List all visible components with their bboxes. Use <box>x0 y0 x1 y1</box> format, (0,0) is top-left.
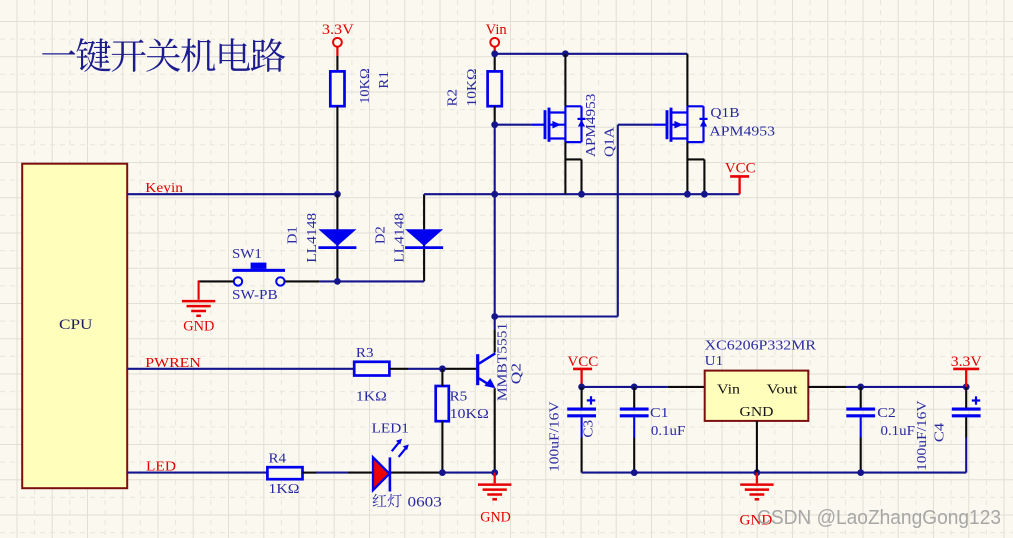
svg-text:3.3V: 3.3V <box>322 22 355 38</box>
diode D2 LL4148 <box>373 213 444 263</box>
svg-text:0.1uF: 0.1uF <box>651 423 686 438</box>
wire D1 anode vertical <box>336 194 338 281</box>
wire D2 vertical <box>423 194 425 281</box>
svg-text:1KΩ: 1KΩ <box>269 481 300 496</box>
resistor R3 1KΩ <box>354 345 389 403</box>
ground GND at Q2 <box>478 473 511 526</box>
svg-text:0603: 0603 <box>408 494 442 510</box>
svg-text:1KΩ: 1KΩ <box>356 388 387 403</box>
wire SW1 right to D1 node <box>285 280 338 282</box>
svg-text:C1: C1 <box>650 405 669 420</box>
svg-text:Q1B: Q1B <box>710 106 739 121</box>
svg-text:Vout: Vout <box>767 382 798 397</box>
svg-text:Vin: Vin <box>717 382 740 397</box>
regulator U1 XC6206P332MR <box>705 339 817 421</box>
svg-text:GND: GND <box>740 405 774 420</box>
wire gate node to Q1A gate <box>495 124 532 126</box>
resistor R1 10KΩ <box>330 68 391 106</box>
svg-text:LL4148: LL4148 <box>392 213 407 263</box>
power port VCC (rail) <box>725 161 756 195</box>
wire Q1A drain pin <box>564 54 566 107</box>
watermark CSDN @LaoZhangGong123 <box>757 506 1001 529</box>
svg-text:R1: R1 <box>376 71 391 89</box>
wire Q1B drain pin <box>686 54 688 107</box>
wire LED1 cathode to R5 node <box>391 472 442 474</box>
svg-text:10KΩ: 10KΩ <box>450 406 489 421</box>
node Q1A drain junction <box>562 50 569 57</box>
svg-text:APM4953: APM4953 <box>583 93 598 157</box>
svg-text:GND: GND <box>480 510 511 526</box>
wire Vout rail <box>808 386 966 388</box>
svg-text:100uF/16V: 100uF/16V <box>914 400 929 471</box>
wire SW1 left to GND corner <box>199 280 234 282</box>
net label LED <box>146 459 176 474</box>
wire GND drop <box>198 280 200 299</box>
power port Vin (top) <box>486 22 508 51</box>
wire Q1A source pins <box>565 142 581 194</box>
svg-text:Vin: Vin <box>486 22 508 38</box>
resistor R5 10KΩ <box>436 386 489 421</box>
svg-text:MMBT5551: MMBT5551 <box>495 323 510 401</box>
node Keyin-D1 junction <box>334 191 341 198</box>
svg-text:R2: R2 <box>445 89 460 107</box>
svg-text:100uF/16V: 100uF/16V <box>547 401 562 472</box>
node U1 GND junction <box>754 469 761 476</box>
switch SW1 SW-PB <box>232 247 285 303</box>
svg-text:SW1: SW1 <box>232 247 262 262</box>
node C3 junction <box>578 384 585 391</box>
node Q1B gate junction <box>491 313 498 320</box>
title 一键开关机电路 <box>42 38 285 72</box>
svg-text:C2: C2 <box>877 405 896 420</box>
wire PWREN <box>127 368 354 370</box>
svg-text:0.1uF: 0.1uF <box>881 423 916 438</box>
wire bottom rail <box>582 472 967 474</box>
wire VCC rail <box>495 193 740 195</box>
wire to Q2 emitter node <box>442 472 494 474</box>
node Vin junction <box>491 50 498 57</box>
svg-text:C4: C4 <box>932 423 947 443</box>
wire U1 GND pin <box>756 421 758 473</box>
svg-text:GND: GND <box>183 319 214 335</box>
capacitor C3 100uF/16V <box>547 387 597 473</box>
wire main vertical net <box>494 125 496 353</box>
node rail junction at main vertical <box>491 191 498 198</box>
node Q1B source junctions <box>684 191 708 198</box>
ground GND at U1 <box>740 473 774 529</box>
svg-text:D2: D2 <box>373 226 388 244</box>
node R5 bottom junction <box>439 469 446 476</box>
node R5 top junction <box>439 365 446 372</box>
wire Vin down to R2 <box>494 51 496 72</box>
power port 3.3V (right) <box>951 354 982 387</box>
wire R4 to LED1 <box>303 472 373 474</box>
wire LED net <box>127 472 267 474</box>
node gate junction <box>491 121 498 128</box>
svg-text:D1: D1 <box>285 226 300 244</box>
wire R5 bottom pin <box>441 421 443 472</box>
svg-text:10KΩ: 10KΩ <box>357 68 372 104</box>
svg-text:C3: C3 <box>581 420 596 438</box>
svg-text:Q1A: Q1A <box>602 127 617 157</box>
node Q1A source junction <box>578 191 585 198</box>
wire Q2 emitter pin <box>494 388 496 472</box>
LED LED1 red 0603 <box>372 421 442 510</box>
capacitor C1 0.1uF <box>620 387 686 473</box>
svg-text:R3: R3 <box>356 345 374 360</box>
node C2 junction <box>857 384 864 391</box>
node C1 junction <box>631 384 638 391</box>
resistor R2 10KΩ <box>445 69 502 107</box>
wire 3.3V to R1 <box>336 56 338 71</box>
wire Q1B gate net <box>495 125 654 317</box>
capacitor C4 100uF/16V <box>914 387 981 473</box>
transistor Q1B APM4953 <box>653 106 775 142</box>
svg-text:APM4953: APM4953 <box>709 125 775 140</box>
wire Q1B source pins <box>687 142 704 194</box>
wire regulator input rail <box>582 386 705 388</box>
wire D2 top to rail <box>424 193 495 195</box>
svg-text:10KΩ: 10KΩ <box>464 69 479 107</box>
svg-text:CPU: CPU <box>59 317 93 333</box>
svg-text:U1: U1 <box>705 354 724 369</box>
node C2 bottom junction <box>857 469 864 476</box>
node C1 bottom junction <box>631 469 638 476</box>
wire D1 to D2 bottom <box>337 280 424 282</box>
svg-text:XC6206P332MR: XC6206P332MR <box>705 339 817 354</box>
transistor Q1A APM4953 <box>531 93 616 157</box>
transistor Q2 MMBT5551 <box>478 323 524 401</box>
ground GND at SW1 <box>182 301 215 334</box>
diode D1 LL4148 <box>285 213 357 263</box>
svg-text:R5: R5 <box>450 388 468 403</box>
net label Keyin <box>145 181 183 196</box>
capacitor C2 0.1uF <box>846 387 915 473</box>
svg-text:VCC: VCC <box>725 161 756 177</box>
wire R3 to Q2 base <box>389 368 476 370</box>
wire R5 top pin <box>441 369 443 386</box>
CPU block U?CPU <box>22 164 127 489</box>
wire R2 to gate node <box>494 106 496 125</box>
resistor R4 1KΩ <box>267 451 302 497</box>
svg-text:LL4148: LL4148 <box>304 213 319 263</box>
node Q2 emitter junction <box>491 469 498 476</box>
power port 3.3V (top) <box>322 22 355 56</box>
svg-text:CSDN @LaoZhangGong123: CSDN @LaoZhangGong123 <box>757 506 1001 529</box>
wire top rail Vin to Q1B drain <box>495 53 688 55</box>
node SW-D1 junction <box>334 278 341 285</box>
svg-text:Q2: Q2 <box>509 363 524 384</box>
svg-text:R4: R4 <box>269 451 287 466</box>
wire Keyin <box>127 193 337 195</box>
wire R1 to Keyin net <box>336 106 338 194</box>
node C4 junction <box>963 384 970 391</box>
svg-text:LED1: LED1 <box>372 421 409 436</box>
power port VCC (C3) <box>567 354 598 387</box>
svg-text:SW-PB: SW-PB <box>232 288 278 303</box>
net label PWREN <box>145 356 201 371</box>
